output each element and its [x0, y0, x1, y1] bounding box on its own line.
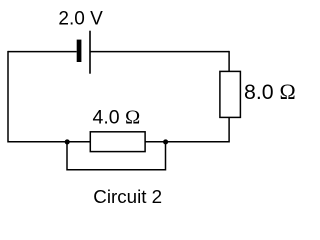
svg-text:4.0 Ω: 4.0 Ω [93, 107, 141, 129]
wire left vertical [7, 51, 9, 143]
wire top (left of battery) [8, 51, 77, 53]
resistor R1 body (4.0 ohm, horizontal) [90, 132, 145, 152]
wire right upper (top wire to resistor R2) [228, 51, 230, 72]
wire right lower (resistor R2 to bottom wire) [228, 117, 230, 142]
resistor R2 body (8.0 ohm, right side) [220, 71, 241, 117]
svg-text:8.0 Ω: 8.0 Ω [244, 80, 296, 104]
wire shorting loop below R1 [67, 142, 166, 170]
node B (right junction dot) [163, 139, 168, 144]
battery V1 positive plate (long thin bar) [89, 31, 91, 74]
svg-text:Circuit 2: Circuit 2 [93, 186, 162, 207]
node A (left junction dot) [65, 139, 70, 144]
svg-text:2.0 V: 2.0 V [58, 8, 103, 29]
wire bottom horizontal [8, 141, 229, 143]
battery V1 negative plate (short thick bar) [77, 40, 82, 62]
wire top (right of battery) [90, 51, 229, 53]
